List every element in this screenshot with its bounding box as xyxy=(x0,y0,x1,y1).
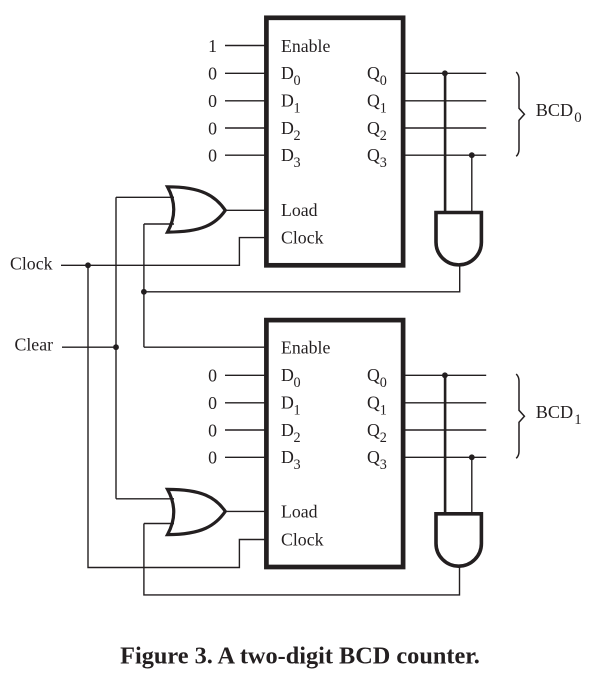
and-gate G2 xyxy=(436,213,481,265)
wire G1 top input xyxy=(116,196,174,198)
svg-text:D: D xyxy=(281,447,294,467)
and-gate G4 xyxy=(436,514,481,566)
svg-text:0: 0 xyxy=(208,448,217,468)
svg-text:Q: Q xyxy=(367,420,380,440)
svg-text:Enable: Enable xyxy=(281,338,330,358)
svg-text:Q: Q xyxy=(367,118,380,138)
svg-text:0: 0 xyxy=(208,146,217,166)
wire D1 stub U1 xyxy=(225,100,266,102)
wire clock vertical to bottom xyxy=(88,265,266,567)
wire Q3 to G2 right input xyxy=(471,155,473,213)
svg-text:0: 0 xyxy=(208,393,217,413)
svg-text:Clear: Clear xyxy=(15,334,54,354)
svg-text:0: 0 xyxy=(574,110,581,126)
svg-text:Enable: Enable xyxy=(281,36,330,56)
svg-text:0: 0 xyxy=(294,375,301,391)
svg-text:Q: Q xyxy=(367,145,380,165)
or-gate G1 xyxy=(168,187,226,232)
wire D0 stub U2 xyxy=(225,374,266,376)
svg-text:Load: Load xyxy=(281,501,318,521)
svg-text:Clock: Clock xyxy=(281,228,324,248)
node feedback junction xyxy=(141,289,147,295)
svg-text:2: 2 xyxy=(380,128,387,144)
svg-text:Q: Q xyxy=(367,447,380,467)
svg-text:D: D xyxy=(281,393,294,413)
svg-text:BCD: BCD xyxy=(536,100,573,120)
wire G4 output feedback xyxy=(144,524,460,595)
svg-text:0: 0 xyxy=(294,73,301,89)
or-gate G3 xyxy=(168,489,226,534)
svg-text:1: 1 xyxy=(294,101,301,117)
svg-text:1: 1 xyxy=(380,101,387,117)
node Q0 junction U2 xyxy=(442,372,448,378)
svg-text:BCD: BCD xyxy=(536,402,573,422)
svg-text:0: 0 xyxy=(208,64,217,84)
brace BCD0 xyxy=(516,72,524,156)
svg-text:D: D xyxy=(281,91,294,111)
wire G3 output to Load U2 xyxy=(225,510,266,512)
wire Clear lead xyxy=(62,346,116,348)
svg-text:Q: Q xyxy=(367,365,380,385)
svg-text:D: D xyxy=(281,420,294,440)
svg-text:0: 0 xyxy=(380,375,387,391)
svg-text:1: 1 xyxy=(574,412,581,428)
svg-text:1: 1 xyxy=(294,403,301,419)
svg-text:Figure 3. A two-digit BCD coun: Figure 3. A two-digit BCD counter. xyxy=(120,643,480,670)
svg-text:D: D xyxy=(281,145,294,165)
svg-text:1: 1 xyxy=(380,403,387,419)
node Q0 junction U1 xyxy=(442,70,448,76)
node clear junction xyxy=(113,344,119,350)
svg-text:D: D xyxy=(281,63,294,83)
wire D3 stub U1 xyxy=(225,154,266,156)
svg-text:1: 1 xyxy=(208,36,217,56)
wire Q3 line U1 xyxy=(403,154,486,156)
wire Enable stub U1 xyxy=(225,45,266,47)
node Q3 junction U2 xyxy=(469,454,475,460)
wire D2 stub U1 xyxy=(225,127,266,129)
wire G3 top input xyxy=(116,498,174,500)
wire Q2 line U1 xyxy=(403,127,486,129)
wire Q0 line U1 xyxy=(403,72,486,74)
wire G1 bottom input xyxy=(144,223,174,225)
wire Q0 line U2 xyxy=(403,374,486,376)
wire D3 stub U2 xyxy=(225,456,266,458)
wire D2 stub U2 xyxy=(225,429,266,431)
wire Q0 to G4 left input xyxy=(444,375,447,514)
svg-text:3: 3 xyxy=(294,155,301,171)
wire Q1 line U1 xyxy=(403,100,486,102)
wire Clock stub U1 xyxy=(61,238,266,266)
svg-text:3: 3 xyxy=(380,155,387,171)
wire Q3 to G4 right input xyxy=(471,457,473,514)
svg-text:Q: Q xyxy=(367,393,380,413)
svg-text:0: 0 xyxy=(208,91,217,111)
node Q3 junction U1 xyxy=(469,152,475,158)
svg-text:2: 2 xyxy=(294,128,301,144)
svg-text:0: 0 xyxy=(380,73,387,89)
wire Q1 line U2 xyxy=(403,402,486,404)
svg-text:0: 0 xyxy=(208,420,217,440)
svg-text:3: 3 xyxy=(380,457,387,473)
svg-text:0: 0 xyxy=(208,366,217,386)
wire Q2 line U2 xyxy=(403,429,486,431)
wire G1 output to Load U1 xyxy=(225,209,266,211)
wire D1 stub U2 xyxy=(225,402,266,404)
wire Q0 to G2 left input xyxy=(444,73,447,213)
wire G3 bottom input xyxy=(144,523,174,525)
svg-text:Q: Q xyxy=(367,91,380,111)
svg-text:2: 2 xyxy=(380,430,387,446)
svg-text:Q: Q xyxy=(367,63,380,83)
counter block U2 xyxy=(266,320,403,567)
svg-text:Load: Load xyxy=(281,200,318,220)
counter block U1 xyxy=(266,18,403,265)
wire clear vertical bus xyxy=(115,197,117,499)
wire D0 stub U1 xyxy=(225,72,266,74)
svg-text:2: 2 xyxy=(294,430,301,446)
svg-text:0: 0 xyxy=(208,118,217,138)
wire G2 output feedback xyxy=(144,266,460,292)
svg-text:Clock: Clock xyxy=(10,254,53,274)
brace BCD1 xyxy=(516,374,524,458)
svg-text:Clock: Clock xyxy=(281,530,324,550)
wire Q3 line U2 xyxy=(403,456,486,458)
wire Enable U2 xyxy=(144,346,266,348)
svg-text:D: D xyxy=(281,365,294,385)
node clock junction xyxy=(85,262,91,268)
wire feedback vertical xyxy=(143,224,145,347)
svg-text:3: 3 xyxy=(294,457,301,473)
svg-text:D: D xyxy=(281,118,294,138)
